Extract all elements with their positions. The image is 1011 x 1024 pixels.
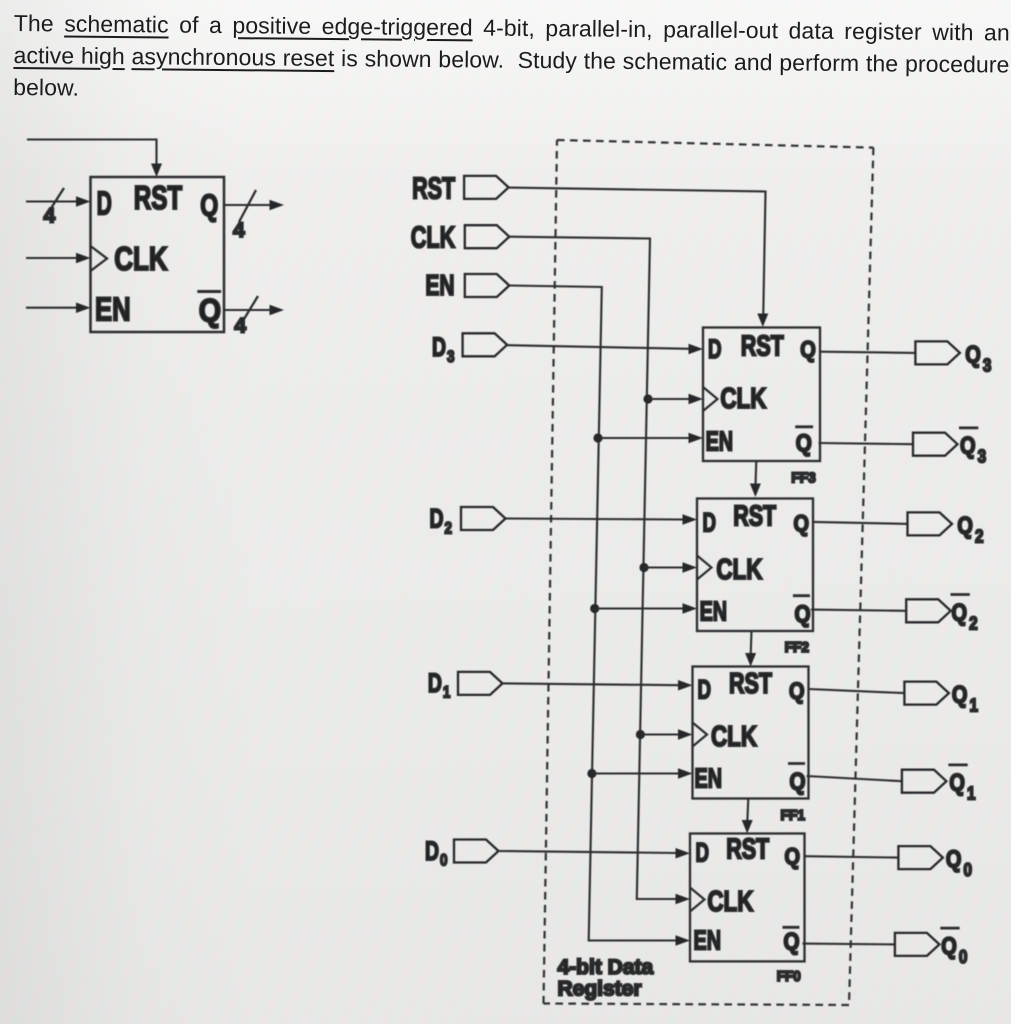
port D1 — [458, 672, 503, 695]
svg-text:EN: EN — [95, 291, 131, 328]
label Qbar2 — [951, 595, 978, 634]
wire CLK branch to FF1 — [640, 729, 692, 740]
svg-text:EN: EN — [700, 595, 728, 626]
bus slash Qbar output — [241, 296, 258, 324]
svg-text:0: 0 — [440, 851, 448, 870]
pin label Q (FF2) — [794, 510, 810, 536]
svg-text:RST: RST — [741, 330, 784, 362]
label Q3 — [965, 341, 991, 375]
wire EN branch to FF1 — [592, 768, 693, 779]
svg-text:FF1: FF1 — [781, 807, 806, 824]
svg-text:FF3: FF3 — [791, 469, 816, 486]
svg-text:4: 4 — [44, 204, 56, 227]
junction CLK node at FF3 — [643, 394, 652, 403]
pin label Qbar (FF1) — [788, 764, 806, 796]
wire RST chain FF2 to FF1 — [745, 631, 756, 667]
flip-flop FF0 — [690, 834, 805, 962]
pin label Q (FF0) — [785, 843, 801, 869]
svg-text:FF0: FF0 — [777, 968, 801, 985]
svg-text:EN: EN — [706, 426, 734, 457]
svg-text:RST: RST — [733, 501, 776, 533]
designator label FF1 — [781, 807, 806, 824]
junction CLK node at FF2 — [639, 563, 648, 572]
svg-text:Q: Q — [796, 430, 812, 457]
label D1 — [428, 668, 451, 702]
pin label Qbar (U1) — [197, 292, 221, 329]
wire CLK input — [26, 253, 91, 264]
svg-text:Q: Q — [957, 512, 973, 539]
svg-text:Q: Q — [946, 846, 962, 873]
svg-text:CLK: CLK — [707, 886, 753, 918]
label CLK — [411, 220, 456, 255]
wire Q0 output — [805, 856, 899, 857]
pin label D (FF1) — [698, 675, 712, 705]
svg-text:1: 1 — [967, 784, 976, 804]
port Q3 — [915, 341, 960, 364]
designator label FF0 — [777, 968, 801, 985]
dashed boundary (right edge) — [849, 148, 873, 1005]
svg-text:CLK: CLK — [711, 721, 757, 753]
wire Q2 output — [813, 522, 908, 524]
svg-text:D: D — [428, 668, 442, 698]
svg-text:1: 1 — [970, 696, 979, 716]
wire RST chain FF1 to FF0 — [742, 799, 753, 834]
svg-text:D: D — [97, 185, 112, 222]
wire Qbar0 output — [803, 943, 895, 946]
port Qbar0 — [895, 933, 940, 956]
bus slash D input — [46, 188, 64, 216]
svg-text:EN: EN — [425, 270, 454, 302]
label D2 — [430, 504, 453, 538]
svg-text:CLK: CLK — [114, 240, 168, 277]
svg-text:3: 3 — [447, 347, 455, 366]
svg-text:Q: Q — [800, 336, 816, 362]
pin label RST (FF2) — [733, 501, 776, 533]
svg-text:Q: Q — [952, 599, 968, 626]
junction EN node at FF1 — [587, 769, 596, 778]
svg-text:Q: Q — [965, 341, 981, 368]
svg-text:Q: Q — [789, 678, 805, 704]
svg-text:CLK: CLK — [720, 383, 766, 415]
svg-text:D: D — [698, 675, 712, 705]
register block U1 — [91, 177, 225, 332]
label Qbar0 — [940, 928, 967, 967]
port Q2 — [908, 512, 953, 535]
svg-text:D: D — [430, 504, 444, 534]
svg-text:D: D — [703, 507, 717, 537]
port Q1 — [904, 682, 949, 705]
wire Qbar1 output — [807, 776, 902, 781]
clock triangle (FF0) — [690, 888, 705, 912]
pin label Qbar (FF0) — [783, 927, 800, 955]
wire CLK branch to FF2 — [644, 562, 697, 573]
svg-text:4: 4 — [233, 219, 245, 242]
svg-text:Q: Q — [949, 770, 965, 797]
label 4 (Qbar bus width) — [234, 314, 246, 337]
wire RST net — [509, 188, 768, 327]
svg-text:RST: RST — [134, 179, 183, 216]
label D0 — [425, 836, 448, 870]
junction EN node at FF3 — [593, 433, 602, 442]
port Q0 — [898, 846, 943, 869]
port Qbar1 — [902, 770, 947, 793]
dashed boundary: 4-bit data register (top edge) — [557, 140, 873, 148]
wire Q bus output — [224, 200, 284, 211]
wire EN input — [26, 302, 91, 313]
svg-text:Register: Register — [558, 978, 642, 1001]
label 4 (Q bus width) — [233, 219, 245, 242]
wire EN net vertical — [510, 286, 691, 946]
designator label FF2 — [785, 639, 810, 656]
pin label RST (FF0) — [726, 834, 769, 866]
label Q1 — [952, 682, 978, 716]
port EN — [465, 274, 510, 297]
wire Qbar2 output — [811, 610, 906, 611]
svg-text:D: D — [696, 838, 710, 868]
pin label Qbar (FF3) — [795, 427, 813, 457]
svg-text:Q: Q — [200, 188, 218, 223]
label EN — [425, 270, 454, 302]
wire D0 to FF0 — [499, 848, 690, 859]
clock triangle (FF2) — [697, 556, 712, 580]
clock triangle (FF3) — [703, 387, 718, 411]
svg-text:EN: EN — [694, 925, 722, 956]
wire Q1 output — [809, 689, 905, 693]
svg-text:4-bit Data: 4-bit Data — [558, 956, 654, 979]
pin label CLK (U1) — [114, 240, 168, 277]
svg-text:2: 2 — [969, 613, 978, 633]
label 4 (D bus width) — [44, 204, 56, 227]
svg-text:RST: RST — [729, 668, 772, 700]
label D3 — [432, 332, 455, 366]
label Q2 — [957, 512, 983, 546]
svg-text:Q: Q — [952, 682, 968, 709]
svg-text:1: 1 — [443, 683, 451, 702]
pin label EN (FF3) — [706, 426, 734, 457]
wire RST chain FF3 to FF2 — [750, 461, 761, 497]
port D3 — [463, 333, 508, 356]
svg-text:Q: Q — [790, 769, 806, 796]
svg-text:Q: Q — [960, 433, 976, 460]
wire EN branch to FF2 — [595, 603, 697, 614]
label Qbar3 — [959, 428, 986, 467]
junction EN node at FF2 — [590, 604, 599, 613]
pin label D (FF0) — [696, 838, 710, 868]
svg-text:FF2: FF2 — [785, 639, 810, 656]
svg-text:Q: Q — [794, 510, 810, 536]
label Qbar1 — [948, 765, 975, 804]
pin label RST (FF3) — [741, 330, 784, 362]
pin label Q (U1) — [200, 188, 218, 223]
svg-text:CLK: CLK — [716, 554, 762, 586]
pin label Q (FF3) — [800, 336, 816, 362]
pin label CLK (FF2) — [716, 554, 762, 586]
svg-text:2: 2 — [975, 526, 984, 546]
wire D3 to FF3 — [507, 344, 703, 355]
junction CLK node at FF1 — [636, 730, 645, 739]
dashed boundary (bottom edge) — [544, 1004, 850, 1006]
bus slash Q output — [239, 190, 256, 222]
port D2 — [461, 507, 506, 530]
wire Qbar bus output — [224, 305, 284, 316]
pin label D (FF2) — [703, 507, 717, 537]
port RST — [464, 176, 509, 199]
pin label EN (U1) — [95, 291, 131, 328]
flip-flop FF3 — [703, 328, 820, 462]
svg-text:3: 3 — [983, 355, 992, 375]
svg-text:4: 4 — [234, 314, 246, 337]
svg-text:0: 0 — [964, 860, 973, 880]
svg-text:Q: Q — [941, 933, 957, 960]
designator label FF3 — [791, 469, 816, 486]
port Qbar3 — [913, 433, 958, 456]
flip-flop FF2 — [697, 499, 813, 632]
port CLK — [465, 225, 510, 248]
port Qbar2 — [906, 599, 951, 622]
clock triangle (U1) — [91, 246, 108, 271]
pin label RST (FF1) — [729, 668, 772, 700]
pin label EN (FF1) — [695, 763, 723, 794]
pin label CLK (FF3) — [720, 383, 766, 415]
svg-text:0: 0 — [959, 947, 968, 967]
wire CLK net vertical — [510, 237, 691, 905]
pin label D (FF3) — [708, 334, 722, 364]
svg-text:RST: RST — [412, 172, 455, 206]
svg-text:Q: Q — [199, 293, 221, 329]
pin label EN (FF0) — [694, 925, 722, 956]
svg-text:EN: EN — [695, 763, 723, 794]
wire D2 to FF2 — [506, 514, 697, 525]
wire CLK branch to FF3 — [648, 394, 703, 405]
svg-text:CLK: CLK — [411, 220, 456, 255]
pin label D (U1) — [97, 185, 112, 222]
svg-text:D: D — [708, 334, 722, 364]
svg-text:3: 3 — [978, 447, 987, 467]
svg-text:D: D — [425, 836, 439, 866]
svg-text:Q: Q — [784, 929, 800, 956]
pin label CLK (FF1) — [711, 721, 757, 753]
label RST — [412, 172, 455, 206]
svg-text:Q: Q — [785, 843, 801, 869]
port D0 — [454, 840, 499, 863]
svg-text:2: 2 — [445, 519, 453, 538]
pin label Qbar (FF2) — [793, 596, 811, 628]
svg-text:D: D — [432, 332, 446, 362]
wire D bus input — [26, 196, 91, 207]
wire EN branch to FF3 — [598, 433, 703, 444]
pin label CLK (FF0) — [707, 886, 753, 918]
label Q0 — [946, 846, 972, 880]
pin label RST (U1) — [134, 179, 183, 216]
svg-text:RST: RST — [726, 834, 769, 866]
wire Q3 output — [821, 352, 916, 353]
pin label Q (FF1) — [789, 678, 805, 704]
svg-text:Q: Q — [795, 601, 811, 628]
wire RST top feed (left symbol) — [27, 140, 162, 178]
flip-flop FF1 — [693, 667, 809, 799]
clock triangle (FF1) — [693, 723, 708, 747]
pin label EN (FF2) — [700, 595, 728, 626]
dashed boundary (left edge) — [544, 140, 558, 1004]
wire D1 to FF1 — [503, 680, 693, 691]
label 4-bit Data Register — [558, 956, 654, 1001]
wire Qbar3 output — [819, 443, 914, 444]
